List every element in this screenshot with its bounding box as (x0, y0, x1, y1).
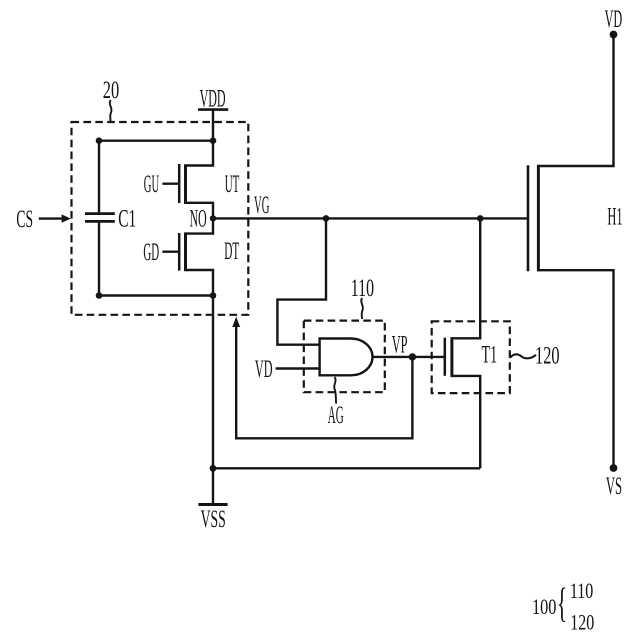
wire feedback VP to box 20 (236, 326, 412, 438)
squiggle leader for 110 (361, 298, 363, 319)
op-amp AG (AND gate) (320, 339, 373, 376)
svg-text:VD: VD (605, 6, 623, 33)
VDD terminal underline (198, 108, 228, 111)
wire UT drain from rail (186, 141, 214, 166)
node VD terminal dot (610, 31, 618, 39)
wire T1 drain up to VG line (452, 218, 480, 338)
svg-text:AG: AG (328, 402, 344, 429)
svg-text:VP: VP (392, 331, 408, 358)
svg-text:GD: GD (143, 239, 159, 266)
wire VSS node to T1 source (213, 467, 480, 469)
svg-text:120: 120 (535, 342, 560, 369)
svg-text:UT: UT (225, 171, 240, 198)
svg-text:{: { (557, 580, 568, 626)
wire UT source to NO (186, 203, 214, 219)
transistor H1 (537, 165, 540, 272)
svg-text:DT: DT (224, 238, 239, 265)
svg-text:110: 110 (570, 578, 593, 603)
arrow CS input (39, 217, 63, 219)
squiggle leader for AG (334, 377, 336, 404)
node T1 drain junction (477, 215, 484, 222)
wire DT drain from NO (186, 218, 214, 233)
svg-text:T1: T1 (482, 342, 498, 369)
svg-text:VD: VD (255, 356, 273, 383)
transistor T1 (444, 338, 447, 376)
wire H1 gate lead (480, 217, 528, 219)
svg-text:H1: H1 (607, 204, 622, 231)
ground VSS (212, 468, 214, 504)
wire VDD down into box 20 (212, 110, 214, 141)
transistor UT (184, 164, 187, 204)
wire left branch upper (98, 141, 100, 214)
wire VG line NO to H1 gate (213, 217, 480, 219)
node VS terminal dot (610, 464, 618, 472)
box 120 dashed (432, 321, 510, 393)
node VSS junction (210, 465, 217, 472)
box 20 dashed (72, 122, 249, 315)
svg-text:VDD: VDD (200, 85, 226, 112)
wire left branch lower (98, 221, 100, 295)
node bottom-right junction (210, 292, 217, 299)
wire T1 source down (452, 376, 480, 468)
svg-text:C1: C1 (118, 205, 136, 232)
node top-left junction (96, 137, 103, 144)
squiggle leader for 120 (510, 354, 536, 358)
node top-right junction (210, 137, 217, 144)
svg-text:VS: VS (606, 473, 622, 500)
wire VD to AND bottom input (276, 367, 320, 369)
node NO (210, 215, 216, 221)
node VP junction (409, 353, 416, 360)
box 110 dashed (304, 321, 385, 393)
arrow into box 20 (232, 317, 240, 327)
svg-text:GU: GU (144, 171, 159, 198)
wire feedback to AND top input (277, 218, 326, 344)
svg-text:VG: VG (254, 192, 269, 219)
wire inner top rail (99, 139, 213, 141)
svg-text:NO: NO (190, 206, 207, 233)
svg-text:100: 100 (532, 594, 556, 619)
wire H1 source to VS (538, 270, 613, 468)
node VG tap junction (323, 215, 330, 222)
node bottom-left junction (96, 292, 103, 299)
svg-text:110: 110 (351, 275, 374, 302)
wire VD to H1 drain (538, 35, 613, 167)
svg-text:120: 120 (570, 610, 594, 635)
svg-text:CS: CS (16, 206, 33, 233)
svg-text:20: 20 (103, 77, 119, 104)
transistor DT (184, 232, 187, 271)
wire inner bottom rail (99, 294, 213, 296)
capacitor C1 (85, 212, 115, 215)
svg-text:VSS: VSS (201, 506, 226, 533)
wire NO column down to VSS node (212, 296, 214, 469)
wire DT source to bottom rail (186, 270, 214, 296)
wire AND output to T1 gate (372, 356, 444, 358)
squiggle leader for 20 (110, 100, 112, 122)
